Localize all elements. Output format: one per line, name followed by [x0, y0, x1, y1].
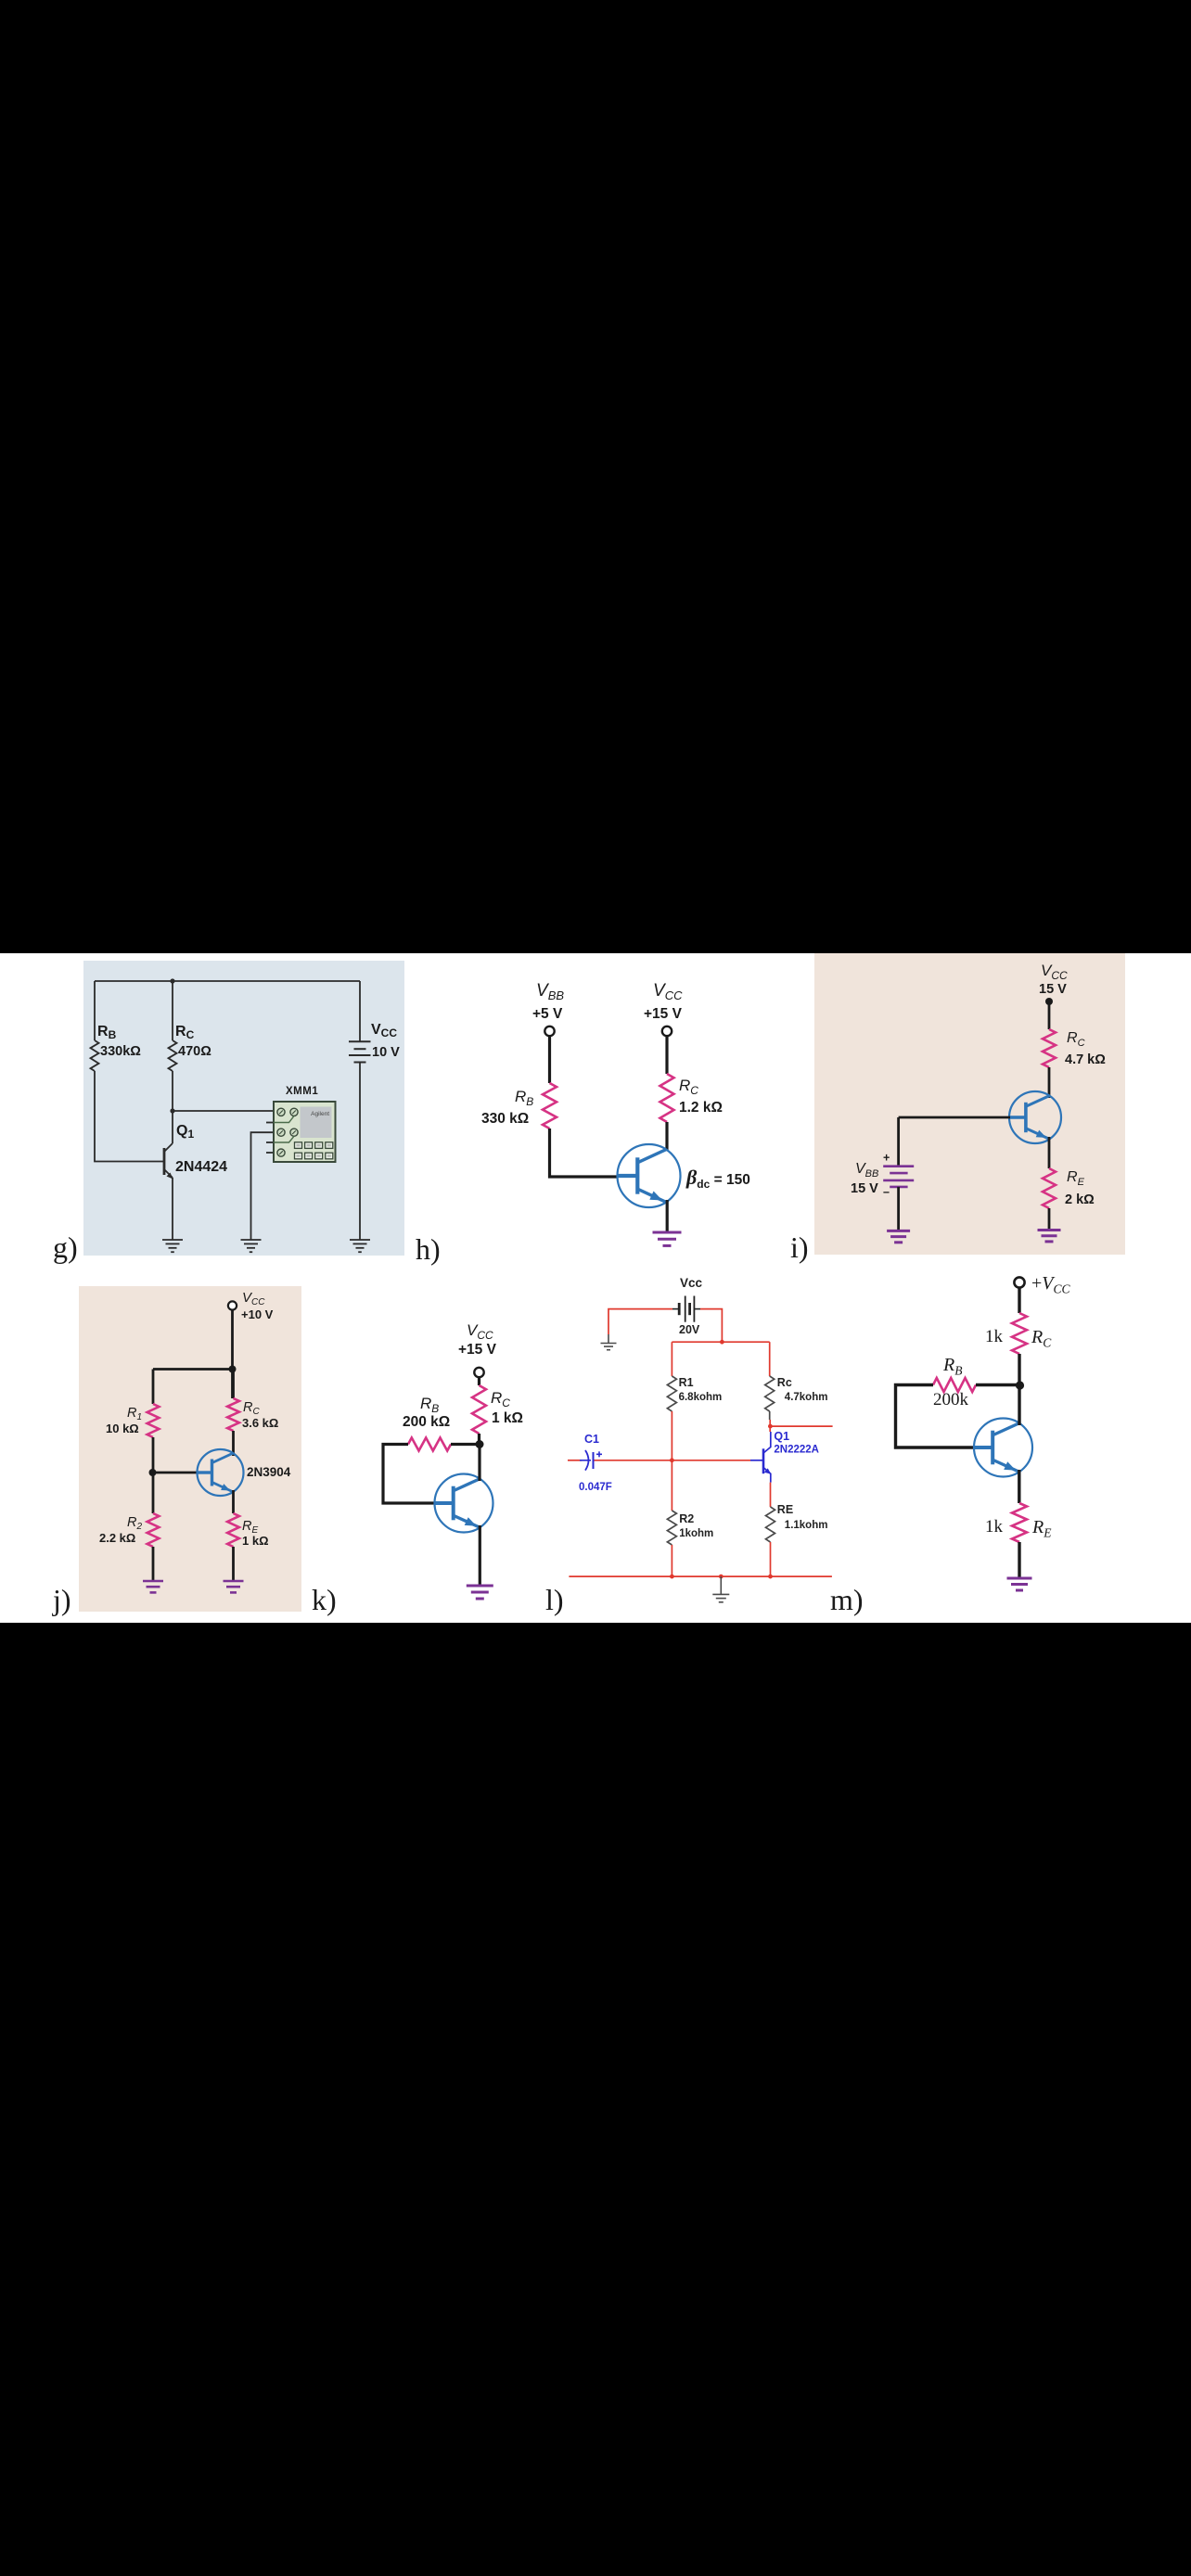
resistor RC 4.7k (i)	[1043, 1029, 1056, 1067]
label XMM1 (g)	[286, 1086, 318, 1097]
wire collector (m)	[1018, 1385, 1020, 1425]
svg-text:i): i)	[790, 1231, 809, 1264]
svg-text:1.1kohm: 1.1kohm	[785, 1520, 828, 1531]
svg-text:RB: RB	[942, 1355, 962, 1378]
svg-text:6.8kohm: 6.8kohm	[679, 1392, 723, 1403]
svg-text:15 V: 15 V	[851, 1181, 878, 1196]
resistor RC 1k (m)	[1012, 1313, 1027, 1354]
wire top bus (l)	[672, 1341, 769, 1343]
label C1 (l)	[584, 1433, 599, 1446]
wire battery left to ground (l)	[608, 1309, 672, 1334]
svg-text:C1: C1	[584, 1433, 599, 1446]
value label 1 kΩ (j)	[242, 1534, 269, 1548]
battery VBB 15V (i)	[883, 1167, 914, 1187]
terminal VBB (h)	[544, 1027, 554, 1036]
wire RC to node (k)	[478, 1434, 480, 1445]
wire VCC to RC (k)	[478, 1377, 480, 1385]
svg-text:470Ω: 470Ω	[178, 1044, 211, 1059]
label RB (k)	[420, 1395, 439, 1415]
terminal VCC (j)	[228, 1301, 237, 1309]
wire VCC down (j)	[231, 1310, 234, 1399]
resistor RB 330k (h)	[543, 1083, 557, 1129]
svg-text:h): h)	[416, 1232, 441, 1266]
svg-text:βdc = 150: βdc = 150	[685, 1166, 750, 1191]
ground (h)	[653, 1232, 682, 1245]
label h)	[416, 1232, 441, 1266]
resistor R1 6.8kohm (l)	[667, 1376, 676, 1411]
resistor RB 200k (m)	[933, 1378, 976, 1392]
svg-text:XMM1: XMM1	[286, 1086, 318, 1097]
wire VBB top (i)	[897, 1117, 900, 1167]
ground under XMM wire (g)	[241, 1240, 262, 1252]
label RC (i)	[1067, 1030, 1085, 1049]
node collector output junction (l)	[768, 1424, 773, 1429]
wire RB to base (h)	[550, 1129, 619, 1177]
wire RB to node (k)	[451, 1443, 480, 1446]
label 2N4424 (g)	[175, 1159, 227, 1175]
wire top rail g	[95, 980, 360, 982]
wire RE to bottom bus (l)	[770, 1542, 772, 1576]
label Q1 (g)	[176, 1123, 194, 1141]
wire collector (k)	[478, 1445, 480, 1482]
svg-text:1 kΩ: 1 kΩ	[492, 1410, 523, 1426]
svg-text:Agilent: Agilent	[311, 1111, 329, 1117]
battery VCC 10V (g)	[349, 981, 371, 1240]
wire output line (l)	[770, 1425, 832, 1427]
svg-text:0.047F: 0.047F	[579, 1482, 612, 1493]
wire RC top (j)	[232, 1370, 235, 1399]
svg-text:200 kΩ: 200 kΩ	[403, 1414, 450, 1430]
value label 200k (m)	[933, 1390, 969, 1409]
svg-text:Q1: Q1	[774, 1430, 789, 1443]
wire top cross (j)	[153, 1368, 233, 1371]
wire RC to collector (j)	[232, 1431, 235, 1456]
label 2N2222A (l)	[774, 1445, 819, 1456]
resistor R2 2.2k (j)	[147, 1513, 160, 1547]
wire RB left to base (k)	[383, 1445, 436, 1504]
label l)	[545, 1583, 564, 1616]
svg-text:1k: 1k	[985, 1327, 1004, 1346]
panel g background	[83, 961, 404, 1256]
value label 15 V battery (i)	[851, 1181, 878, 1196]
label i)	[790, 1231, 809, 1264]
wire base (l)	[595, 1460, 751, 1461]
svg-text:RE: RE	[777, 1503, 793, 1516]
wire VCC to RC (m)	[1018, 1288, 1020, 1313]
terminal VCC (k)	[474, 1368, 483, 1377]
resistor RE 1.1kohm (l)	[766, 1507, 775, 1542]
resistor RC 3.6k (j)	[227, 1398, 239, 1431]
ground (k)	[467, 1586, 493, 1599]
resistor R2 1kohm (l)	[667, 1511, 676, 1545]
transistor Q1 2N2222A (l)	[750, 1432, 771, 1483]
svg-text:330kΩ: 330kΩ	[100, 1044, 141, 1059]
value label 4.7kohm (l)	[785, 1392, 828, 1403]
label RB (m)	[942, 1355, 962, 1378]
svg-text:RC: RC	[1031, 1327, 1052, 1350]
label RE (l)	[777, 1503, 793, 1516]
value label 200 kΩ (k)	[403, 1414, 450, 1430]
node bus ground (l)	[719, 1575, 724, 1579]
svg-text:RC: RC	[679, 1077, 698, 1097]
wire base (j)	[153, 1472, 200, 1474]
ground under Q1 (g)	[162, 1240, 183, 1252]
svg-text:1.2 kΩ: 1.2 kΩ	[679, 1100, 723, 1116]
label RE (m)	[1031, 1517, 1052, 1540]
wire bottom bus (l)	[569, 1575, 832, 1577]
label RB (h)	[515, 1088, 533, 1108]
svg-text:20V: 20V	[679, 1323, 700, 1336]
svg-text:10 V: 10 V	[372, 1045, 400, 1060]
transistor npn (m)	[974, 1419, 1032, 1477]
label Vcc (l)	[680, 1276, 703, 1290]
wire VBB to RB (h)	[548, 1036, 551, 1083]
wire VCC to RC (h)	[665, 1036, 668, 1074]
wire emitter to ground (h)	[666, 1200, 669, 1232]
label g)	[53, 1231, 78, 1264]
svg-text:3.6 kΩ: 3.6 kΩ	[242, 1416, 278, 1430]
label VBB (h)	[536, 981, 564, 1002]
wire RC to collector (i)	[1048, 1067, 1051, 1098]
value label 1k RC (m)	[985, 1327, 1004, 1346]
resistor RC 1.2k (h)	[660, 1074, 674, 1122]
wire battery right to top bus (l)	[700, 1309, 722, 1343]
ground left (j)	[143, 1581, 163, 1592]
value label +5 V (h)	[532, 1006, 563, 1022]
label +VCC (m)	[1031, 1273, 1071, 1296]
value label 6.8kohm (l)	[679, 1392, 723, 1403]
label Rc (l)	[777, 1376, 792, 1389]
ground under VBB (i)	[887, 1231, 910, 1242]
value label 1k RE (m)	[985, 1517, 1004, 1537]
resistor RB 330k (g)	[91, 1040, 99, 1071]
label R1 (l)	[679, 1376, 694, 1389]
value label 10 V (g)	[372, 1045, 400, 1060]
value label 0.047F (l)	[579, 1482, 612, 1493]
transistor 2N3904 (j)	[198, 1449, 244, 1496]
node VCC dot (i)	[1045, 998, 1053, 1005]
value label 2.2 kΩ (j)	[99, 1531, 135, 1545]
value label 1 kΩ (k)	[492, 1410, 523, 1426]
label VCC (h)	[653, 981, 683, 1002]
svg-text:–: –	[883, 1186, 890, 1199]
wire base (i)	[899, 1116, 1010, 1119]
node bus R2 (l)	[670, 1575, 674, 1579]
wire RC branch g	[172, 981, 173, 1143]
node feedback junction (m)	[1016, 1381, 1024, 1389]
label Q1 (l)	[774, 1430, 789, 1443]
resistor RE 1k (m)	[1012, 1503, 1027, 1542]
wire R2 to bottom bus (l)	[671, 1545, 672, 1576]
transistor npn (i)	[1009, 1091, 1061, 1143]
transistor Q 2N npn (h)	[618, 1144, 681, 1207]
svg-text:+5 V: +5 V	[532, 1006, 563, 1022]
label RC (j)	[243, 1400, 260, 1417]
value label 1.1kohm (l)	[785, 1520, 828, 1531]
label beta dc = 150 (h)	[685, 1166, 750, 1191]
svg-text:m): m)	[830, 1583, 864, 1616]
value label 10 kΩ (j)	[106, 1422, 139, 1435]
label RC (m)	[1031, 1327, 1052, 1350]
transistor npn (k)	[435, 1474, 493, 1533]
value label +10 V (j)	[241, 1307, 274, 1321]
svg-text:1k: 1k	[985, 1517, 1004, 1537]
label RE (j)	[242, 1519, 258, 1536]
svg-text:VBB: VBB	[536, 981, 564, 1002]
value label +15 V (h)	[644, 1006, 683, 1022]
svg-text:+VCC: +VCC	[1031, 1273, 1071, 1296]
wire emitter to RE (l)	[770, 1483, 772, 1507]
label - minus (i)	[883, 1186, 890, 1199]
value label 3.6 kΩ (j)	[242, 1416, 278, 1430]
panel i background	[814, 953, 1125, 1255]
svg-text:+: +	[883, 1152, 890, 1165]
svg-text:2N2222A: 2N2222A	[774, 1445, 819, 1456]
label + plus (i)	[883, 1152, 890, 1165]
label VCC (i)	[1041, 962, 1068, 982]
resistor RC 1k (k)	[472, 1385, 486, 1434]
value label 1kohm (l)	[679, 1528, 713, 1539]
node feedback junction (k)	[476, 1440, 484, 1448]
wire emitter to ground (k)	[479, 1525, 481, 1586]
node base junction (j)	[149, 1469, 157, 1476]
wire RC to node (m)	[1018, 1354, 1020, 1385]
wire collector node to XMM1 g	[173, 1110, 274, 1112]
svg-text:2N3904: 2N3904	[247, 1465, 291, 1479]
svg-text:g): g)	[53, 1231, 78, 1264]
resistor RC 470 (g)	[169, 1040, 177, 1071]
svg-text:+15 V: +15 V	[644, 1006, 683, 1022]
value label 1.2 kΩ (h)	[679, 1100, 723, 1116]
wire emitter to ground g	[172, 1178, 173, 1240]
svg-text:RB: RB	[515, 1088, 533, 1108]
wire Rc top lead (l)	[769, 1342, 771, 1376]
label RC (k)	[491, 1389, 510, 1409]
wire R2 to ground (j)	[152, 1547, 155, 1581]
svg-text:j): j)	[52, 1583, 71, 1616]
svg-text:15 V: 15 V	[1039, 982, 1067, 997]
label RB (g)	[97, 1024, 117, 1041]
svg-text:+15 V: +15 V	[458, 1342, 497, 1358]
resistor R1 10k (j)	[147, 1404, 160, 1437]
wire input left (l)	[568, 1460, 582, 1461]
svg-text:+10 V: +10 V	[241, 1307, 274, 1321]
wire emitter to RE (m)	[1018, 1470, 1020, 1503]
label VBB (i)	[855, 1161, 878, 1180]
node top rail junction g	[170, 978, 174, 983]
value label 20V (l)	[679, 1323, 700, 1336]
label RE (i)	[1067, 1169, 1085, 1188]
terminal VCC (h)	[662, 1027, 672, 1036]
svg-text:10 kΩ: 10 kΩ	[106, 1422, 139, 1435]
label k)	[312, 1583, 337, 1616]
panel j background	[79, 1286, 301, 1612]
wire emitter to RE (j)	[232, 1490, 235, 1513]
value label 4.7 kΩ (i)	[1065, 1052, 1106, 1067]
wire R1 to base node (j)	[152, 1437, 155, 1513]
ground under VCC (g)	[350, 1240, 370, 1252]
resistor RE 2k (i)	[1043, 1168, 1056, 1208]
wire XMM1 pin2 to ground g	[251, 1132, 275, 1240]
node top bus junction (l)	[720, 1340, 724, 1345]
wire RB left to base (m)	[896, 1385, 976, 1448]
wire RB right to node (m)	[976, 1384, 1020, 1386]
resistor RE 1k (j)	[227, 1513, 239, 1547]
svg-text:2N4424: 2N4424	[175, 1159, 227, 1175]
wire VCC to RC (i)	[1048, 1001, 1051, 1029]
svg-text:4.7kohm: 4.7kohm	[785, 1392, 828, 1403]
ground bottom (l)	[712, 1576, 729, 1602]
svg-text:1kohm: 1kohm	[679, 1528, 713, 1539]
value label 470Ω (g)	[178, 1044, 211, 1059]
multimeter XMM1 (g)	[274, 1102, 336, 1162]
wire VBB to ground (i)	[897, 1187, 900, 1231]
label VCC (g)	[371, 1022, 397, 1039]
value label 330kΩ (g)	[100, 1044, 141, 1059]
value label 2 kΩ (i)	[1065, 1192, 1095, 1207]
ground right (j)	[224, 1581, 244, 1592]
svg-text:1 kΩ: 1 kΩ	[242, 1534, 269, 1548]
svg-text:VCC: VCC	[653, 981, 683, 1002]
battery Vcc 20V (l)	[672, 1296, 700, 1322]
wire RC to collector (h)	[665, 1122, 668, 1151]
svg-text:R1: R1	[679, 1376, 694, 1389]
wire R1 top (j)	[152, 1370, 155, 1405]
svg-text:4.7 kΩ: 4.7 kΩ	[1065, 1052, 1106, 1067]
resistor RB 200k (k)	[408, 1438, 451, 1451]
ground (m)	[1007, 1578, 1032, 1590]
label VCC (k)	[467, 1321, 493, 1342]
resistor Rc 4.7kohm (l)	[765, 1376, 775, 1411]
wire R1 top lead (l)	[671, 1342, 672, 1376]
ground top left (l)	[601, 1334, 617, 1350]
svg-text:2 kΩ: 2 kΩ	[1065, 1192, 1095, 1207]
label R1 (j)	[127, 1406, 142, 1422]
svg-text:k): k)	[312, 1583, 337, 1616]
node VCC junction (j)	[229, 1366, 237, 1373]
label RC (g)	[175, 1024, 195, 1041]
wire RE to ground (m)	[1018, 1542, 1020, 1578]
value label +15 V (k)	[458, 1342, 497, 1358]
terminal +VCC (m)	[1014, 1277, 1024, 1287]
node collector junction g	[170, 1108, 174, 1113]
capacitor C1 0.047F (l)	[580, 1450, 602, 1471]
svg-text:330 kΩ: 330 kΩ	[481, 1111, 529, 1127]
svg-text:RE: RE	[1031, 1517, 1052, 1540]
wire XMM1 stub pins g	[266, 1123, 274, 1154]
transistor Q1 2N4424 (g)	[164, 1143, 173, 1180]
value label 15 V (i)	[1039, 982, 1067, 997]
label R2 (l)	[679, 1512, 694, 1525]
wire RB branch left g	[95, 981, 163, 1162]
svg-text:2.2 kΩ: 2.2 kΩ	[99, 1531, 135, 1545]
wire Rc bottom (l)	[769, 1411, 772, 1432]
label R2 (j)	[127, 1515, 142, 1532]
svg-text:RC: RC	[491, 1389, 510, 1409]
wire R2 top (l)	[671, 1460, 672, 1511]
label m)	[830, 1583, 864, 1616]
svg-text:Vcc: Vcc	[680, 1276, 703, 1290]
node mid junction (l)	[670, 1458, 674, 1462]
svg-text:VCC: VCC	[467, 1321, 493, 1342]
wire emitter to RE (i)	[1048, 1137, 1051, 1168]
svg-text:R2: R2	[679, 1512, 694, 1525]
wire RE to ground (i)	[1048, 1208, 1051, 1231]
label RC (h)	[679, 1077, 698, 1097]
wire RE to ground (j)	[232, 1547, 235, 1581]
node bus RE (l)	[768, 1575, 773, 1579]
svg-text:Rc: Rc	[777, 1376, 792, 1389]
label VCC (j)	[242, 1290, 265, 1307]
svg-text:RB: RB	[420, 1395, 439, 1415]
svg-text:200k: 200k	[933, 1390, 969, 1409]
svg-text:l): l)	[545, 1583, 564, 1616]
label j)	[52, 1583, 71, 1616]
ground under RE (i)	[1038, 1231, 1061, 1242]
value label 330 kΩ (h)	[481, 1111, 529, 1127]
label 2N3904 (j)	[247, 1465, 291, 1479]
wire R1 bottom to mid node (l)	[671, 1411, 672, 1460]
